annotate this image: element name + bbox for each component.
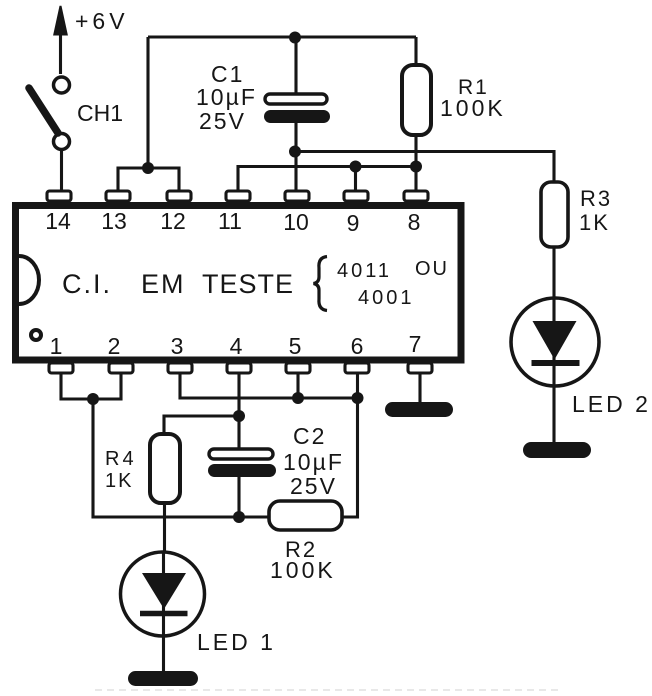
svg-text:10µF: 10µF xyxy=(196,84,257,110)
svg-text:100K: 100K xyxy=(270,557,336,583)
pin 13 pad xyxy=(106,191,130,201)
svg-text:10µF: 10µF xyxy=(283,449,344,475)
label R4 1K xyxy=(105,448,137,492)
label C2 value xyxy=(283,423,344,499)
svg-text:1K: 1K xyxy=(105,470,133,492)
notch xyxy=(19,256,39,304)
wire C1 vertical to pin 10 xyxy=(294,37,297,192)
wire R4 top link xyxy=(164,416,239,434)
label 4011 OU 4001 xyxy=(337,258,449,309)
svg-text:R3: R3 xyxy=(580,186,612,211)
svg-text:14: 14 xyxy=(45,208,71,234)
node B pin8 xyxy=(410,161,422,173)
node A1 xyxy=(289,146,301,158)
pin 9 pad xyxy=(344,191,368,201)
wire net A (C1 bottom to R3) xyxy=(295,152,554,183)
node C2 bottom xyxy=(233,511,245,523)
label C.I. EM TESTE xyxy=(62,269,294,299)
node pin6 xyxy=(352,392,364,404)
node junction top rail / C1 xyxy=(289,32,301,44)
ground LED2 xyxy=(523,442,591,458)
pin 12 pad xyxy=(167,191,191,201)
svg-text:4011: 4011 xyxy=(337,260,392,282)
pin numbers top row xyxy=(45,208,420,236)
svg-text:4: 4 xyxy=(230,333,243,359)
pin 1 pad xyxy=(49,363,73,373)
wire top net (C1/R1 top rail) xyxy=(148,37,416,168)
node C2 top xyxy=(233,410,245,422)
svg-text:100K: 100K xyxy=(440,95,506,121)
brace xyxy=(314,257,328,311)
svg-text:7: 7 xyxy=(409,331,422,357)
svg-text:C2: C2 xyxy=(293,423,326,449)
node junction bracket 13-12 xyxy=(142,162,154,174)
svg-text:+6V: +6V xyxy=(75,8,129,34)
svg-text:12: 12 xyxy=(160,208,186,234)
resistor R1 xyxy=(402,37,431,192)
svg-text:6: 6 xyxy=(351,333,364,359)
label R1 100K xyxy=(440,76,506,121)
pin 4 pad xyxy=(227,363,251,373)
svg-text:CH1: CH1 xyxy=(77,100,123,126)
wire pin7 to ground xyxy=(418,373,421,402)
ground LED1 xyxy=(128,671,198,686)
svg-text:3: 3 xyxy=(171,333,184,359)
pin 3 pad xyxy=(168,363,192,373)
svg-text:EM: EM xyxy=(141,269,186,299)
svg-text:25V: 25V xyxy=(290,473,337,499)
label C1 value xyxy=(196,61,257,134)
label R3 1K xyxy=(579,186,612,235)
LED1 xyxy=(121,552,205,671)
pin 8 pad xyxy=(404,191,428,201)
wire left vertical to R2 rail xyxy=(93,399,269,517)
wire pin3 to net y398 xyxy=(180,373,358,398)
svg-text:1: 1 xyxy=(50,333,63,359)
svg-text:8: 8 xyxy=(408,209,421,235)
svg-text:25V: 25V xyxy=(199,108,246,134)
ground pin7 xyxy=(385,402,453,417)
resistor R2 xyxy=(269,501,342,530)
label R2 100K xyxy=(270,537,336,583)
svg-text:LED 1: LED 1 xyxy=(197,629,276,655)
IC body C.I. EM TESTE xyxy=(16,206,462,361)
wire net B (pins 11-9-8) xyxy=(238,167,416,193)
pin 14 pad xyxy=(47,191,71,201)
svg-text:OU: OU xyxy=(415,258,449,280)
wire pin6 vertical to R2 right xyxy=(342,373,358,517)
resistor R4 xyxy=(150,434,180,553)
svg-text:11: 11 xyxy=(218,208,242,234)
wire bracket pins 1-2 xyxy=(61,373,121,399)
pin 6 pad xyxy=(345,363,369,373)
svg-text:2: 2 xyxy=(108,333,121,359)
node pin5 xyxy=(292,392,304,404)
switch CH1 xyxy=(29,77,70,150)
pin 2 pad xyxy=(109,363,133,373)
power +6V arrow xyxy=(54,6,66,74)
pin1 indicator dot xyxy=(31,330,41,340)
svg-text:13: 13 xyxy=(101,208,127,234)
svg-text:TESTE: TESTE xyxy=(202,269,294,299)
scan artifact line xyxy=(95,689,560,691)
node B pin9 xyxy=(350,161,362,173)
svg-text:1K: 1K xyxy=(579,210,610,235)
node junction 1-2 xyxy=(87,393,99,405)
pin 10 pad xyxy=(285,191,309,201)
capacitor C1 xyxy=(264,94,330,123)
svg-text:C.I.: C.I. xyxy=(62,269,112,299)
wire bracket pins 13-12 xyxy=(118,168,179,192)
wire pin4 vertical through C2 xyxy=(237,373,240,517)
svg-text:R4: R4 xyxy=(105,448,137,470)
pin 7 pad xyxy=(408,363,432,373)
svg-text:9: 9 xyxy=(347,210,360,236)
svg-text:LED 2: LED 2 xyxy=(572,391,651,417)
resistor R3 xyxy=(541,182,568,297)
capacitor C2 xyxy=(208,449,276,477)
pin numbers bottom row xyxy=(50,331,422,359)
svg-text:4001: 4001 xyxy=(358,287,415,309)
svg-text:10: 10 xyxy=(283,209,309,235)
svg-text:5: 5 xyxy=(289,333,302,359)
wire switch to pin 14 xyxy=(60,150,63,192)
pin 5 pad xyxy=(286,363,310,373)
pin 11 pad xyxy=(226,191,250,201)
wire pin5 stub xyxy=(296,373,299,398)
LED2 xyxy=(511,298,599,442)
